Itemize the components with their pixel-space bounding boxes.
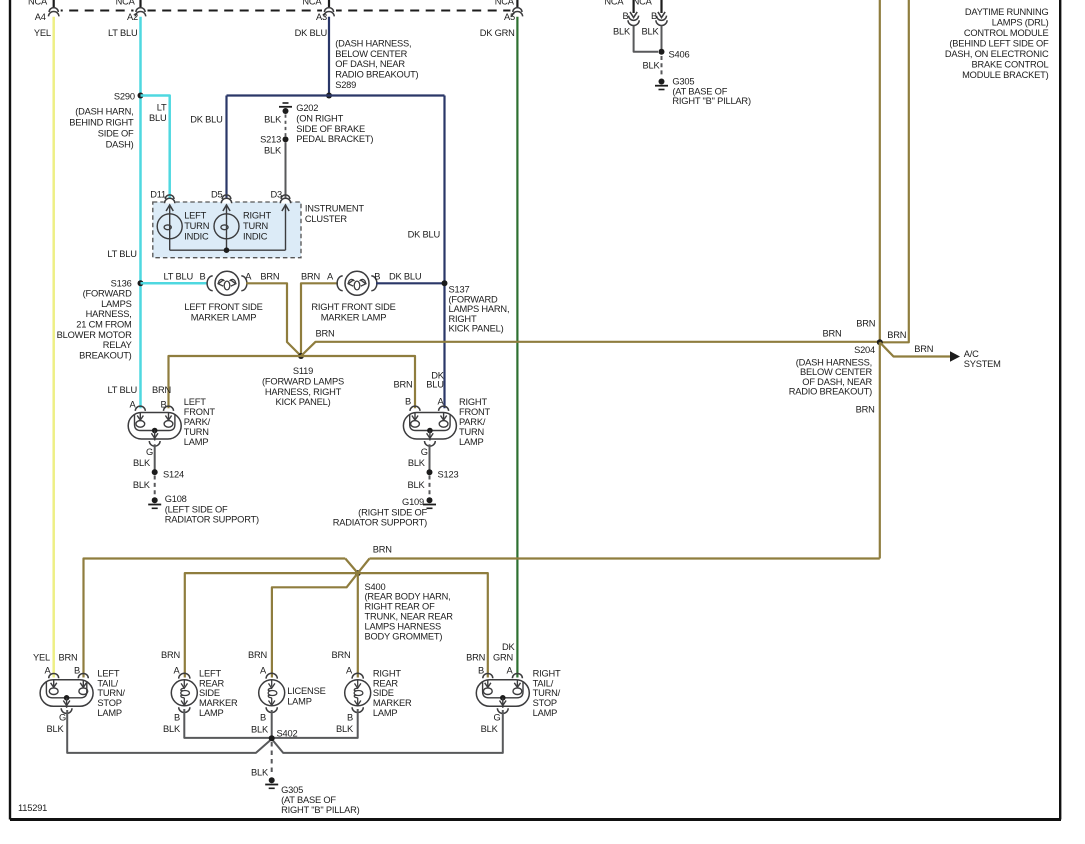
svg-text:B: B (174, 713, 180, 723)
svg-text:G: G (493, 713, 500, 723)
svg-text:(LEFT SIDE OF: (LEFT SIDE OF (165, 504, 228, 514)
DRL module location note (945, 7, 1049, 80)
svg-text:BLOWER MOTOR: BLOWER MOTOR (57, 330, 132, 340)
right turn indicator lamp (214, 205, 271, 242)
svg-text:(AT BASE OF: (AT BASE OF (281, 795, 336, 805)
svg-text:(FORWARD: (FORWARD (83, 289, 132, 299)
wire DK GRN from A5 to right tail lamp (480, 17, 518, 678)
svg-text:(RIGHT SIDE OF: (RIGHT SIDE OF (358, 507, 427, 517)
svg-text:RADIATOR SUPPORT): RADIATOR SUPPORT) (165, 515, 259, 525)
wire BLK right park G to S123 (408, 444, 430, 472)
svg-text:A4: A4 (35, 12, 46, 22)
svg-text:SIDE: SIDE (373, 688, 394, 698)
wire BRN S119 to right park lamp B (301, 356, 415, 408)
svg-text:G202: G202 (296, 103, 318, 113)
svg-text:(FORWARD LAMPS: (FORWARD LAMPS (262, 376, 344, 386)
svg-text:NCA: NCA (604, 0, 624, 7)
svg-text:LT BLU: LT BLU (108, 28, 137, 38)
svg-text:SIDE OF BRAKE: SIDE OF BRAKE (296, 124, 365, 134)
cluster D3 internal wire (282, 205, 289, 251)
svg-text:LAMPS (DRL): LAMPS (DRL) (992, 17, 1049, 27)
splice S402 (269, 729, 298, 742)
label LT BLU vertical (107, 249, 136, 259)
svg-text:MODULE BRACKET): MODULE BRACKET) (962, 70, 1048, 80)
svg-text:DASH, ON ELECTRONIC: DASH, ON ELECTRONIC (945, 49, 1049, 59)
svg-text:S400: S400 (365, 582, 386, 592)
svg-text:LEFT: LEFT (184, 211, 206, 221)
svg-text:NCA: NCA (116, 0, 136, 7)
svg-text:RIGHT: RIGHT (449, 314, 477, 324)
svg-text:S290: S290 (114, 91, 135, 101)
svg-text:LT BLU: LT BLU (164, 272, 193, 282)
svg-text:BLK: BLK (251, 768, 269, 778)
svg-text:TURN/: TURN/ (97, 688, 125, 698)
svg-text:INDIC: INDIC (184, 231, 209, 241)
left tail lamp pin labels (33, 653, 80, 676)
svg-text:BRN: BRN (856, 405, 875, 415)
svg-text:BRN: BRN (887, 330, 906, 340)
svg-text:MARKER: MARKER (373, 698, 412, 708)
wire BRN DRL output 1 (879, 0, 881, 342)
svg-text:BREAKOUT): BREAKOUT) (79, 350, 132, 360)
svg-text:BRN: BRN (301, 272, 320, 282)
wire DK BLU S289 bus (227, 94, 445, 96)
S119 location note (262, 366, 344, 407)
svg-text:BRN: BRN (161, 650, 180, 660)
svg-text:(ON RIGHT: (ON RIGHT (296, 113, 343, 123)
svg-text:MARKER LAMP: MARKER LAMP (321, 313, 386, 323)
svg-text:CLUSTER: CLUSTER (305, 214, 347, 224)
svg-text:BLK: BLK (133, 480, 151, 490)
svg-text:S136: S136 (111, 278, 132, 288)
wire BRN DRL output 2 (880, 0, 909, 342)
svg-text:TURN: TURN (459, 427, 484, 437)
svg-text:HARNESS, RIGHT: HARNESS, RIGHT (265, 387, 342, 397)
svg-text:S119: S119 (293, 366, 313, 376)
left tail/turn/stop lamp (40, 668, 125, 718)
svg-text:KICK PANEL): KICK PANEL) (276, 397, 331, 407)
svg-text:G305: G305 (672, 77, 694, 87)
svg-text:DK BLU: DK BLU (389, 272, 421, 282)
wire BLK right to S406 (661, 26, 663, 52)
svg-text:(AT BASE OF: (AT BASE OF (672, 86, 727, 96)
svg-text:BLK: BLK (264, 114, 282, 124)
svg-text:BLK: BLK (643, 60, 661, 70)
wire BRN S204 down to rear harness (879, 342, 881, 558)
svg-text:S123: S123 (438, 470, 459, 480)
svg-text:G109: G109 (402, 497, 424, 507)
svg-text:TRUNK, NEAR REAR: TRUNK, NEAR REAR (365, 612, 454, 622)
cluster pin D3 (271, 189, 292, 203)
svg-text:B: B (260, 713, 266, 723)
svg-text:SIDE OF: SIDE OF (98, 129, 134, 139)
wire BLK left to S406 (634, 26, 658, 52)
svg-text:BODY GROMMET): BODY GROMMET) (365, 631, 443, 641)
svg-text:SYSTEM: SYSTEM (964, 359, 1001, 369)
wire BLK dashed S402 to G305 (251, 742, 272, 778)
svg-text:BRN: BRN (914, 344, 933, 354)
svg-text:A3: A3 (316, 12, 327, 22)
svg-text:G: G (421, 447, 428, 457)
svg-text:BLK: BLK (133, 458, 151, 468)
S204 labels (822, 318, 933, 414)
svg-text:A: A (346, 666, 353, 676)
svg-text:BEHIND RIGHT: BEHIND RIGHT (69, 118, 134, 128)
ground G305 at right B pillar (bottom) (265, 777, 359, 815)
svg-text:DK BLU: DK BLU (408, 230, 440, 240)
S400 location note (365, 582, 454, 642)
svg-text:RIGHT: RIGHT (459, 397, 487, 407)
svg-text:HARNESS,: HARNESS, (86, 309, 132, 319)
svg-text:DK: DK (502, 642, 516, 652)
svg-text:G: G (146, 447, 153, 457)
svg-text:STOP: STOP (533, 698, 557, 708)
svg-text:RIGHT: RIGHT (373, 668, 401, 678)
svg-text:RADIO BREAKOUT): RADIO BREAKOUT) (789, 387, 872, 397)
svg-text:NCA: NCA (633, 0, 653, 7)
G202 location note (296, 103, 373, 144)
svg-text:A: A (260, 666, 267, 676)
svg-text:LAMPS: LAMPS (101, 299, 132, 309)
splice S204 (877, 339, 883, 345)
wire BRN S204 to A/C system with arrow (880, 342, 1001, 369)
splice S123 (427, 469, 459, 479)
svg-text:(DASH HARN,: (DASH HARN, (75, 107, 133, 117)
svg-text:LT BLU: LT BLU (107, 249, 136, 259)
svg-text:BLK: BLK (47, 724, 65, 734)
svg-text:LEFT: LEFT (199, 668, 221, 678)
wire YEL from A4 to left tail lamp (34, 17, 54, 678)
svg-text:A: A (327, 272, 334, 282)
module connector pin A2 (116, 0, 148, 22)
svg-text:TURN: TURN (184, 221, 209, 231)
svg-text:G108: G108 (165, 494, 187, 504)
left front side marker lamp (184, 271, 262, 322)
svg-text:BRN: BRN (822, 328, 841, 338)
svg-text:D3: D3 (271, 189, 283, 199)
svg-text:BRN: BRN (58, 653, 77, 663)
svg-text:S137: S137 (449, 285, 470, 295)
svg-text:BRN: BRN (856, 318, 875, 328)
svg-text:NCA: NCA (302, 0, 322, 7)
splice S400 (345, 559, 369, 577)
svg-text:FRONT: FRONT (459, 407, 491, 417)
svg-text:BELOW CENTER: BELOW CENTER (800, 367, 872, 377)
svg-text:SIDE: SIDE (199, 688, 220, 698)
svg-text:FRONT: FRONT (184, 407, 216, 417)
splice S137 (442, 280, 448, 286)
cluster internal bus (170, 239, 286, 253)
svg-text:S213: S213 (260, 135, 281, 145)
svg-text:S204: S204 (854, 345, 875, 355)
wire DK BLU to S137 (408, 96, 445, 409)
svg-text:BRN: BRN (331, 650, 350, 660)
S137 location note (449, 285, 510, 334)
svg-text:LT: LT (157, 103, 167, 113)
wire BRN S400 to license lamp (248, 573, 358, 677)
wire BRN left marker to S119 (245, 272, 301, 357)
svg-text:RIGHT "B" PILLAR): RIGHT "B" PILLAR) (281, 805, 360, 815)
wire LT BLU from A2 (108, 17, 140, 408)
svg-text:BELOW CENTER: BELOW CENTER (335, 49, 407, 59)
ground G305 at right B pillar (top) (655, 77, 751, 106)
wire BRN S400 to left rear marker (161, 573, 358, 677)
ground G109 (333, 497, 436, 528)
wire BRN right marker to S119 (301, 272, 338, 357)
right front park/turn lamp (403, 397, 490, 447)
diagram frame (9, 0, 11, 820)
S136 location note (57, 278, 132, 360)
svg-text:RIGHT: RIGHT (533, 668, 561, 678)
svg-text:MARKER: MARKER (199, 698, 238, 708)
svg-text:BRN: BRN (393, 380, 412, 390)
svg-text:BLK: BLK (613, 27, 631, 37)
left turn indicator lamp (157, 205, 209, 242)
svg-text:B: B (405, 397, 411, 407)
svg-text:RELAY: RELAY (103, 340, 132, 350)
svg-text:BRN: BRN (373, 544, 392, 554)
splice S136 (138, 280, 144, 286)
svg-text:BRN: BRN (260, 272, 279, 282)
svg-text:INSTRUMENT: INSTRUMENT (305, 203, 364, 213)
svg-text:BLK: BLK (336, 724, 354, 734)
svg-text:B: B (374, 272, 380, 282)
wire BLK dashed G202 to S213 (264, 114, 285, 136)
wire BLK left park G to S124 (133, 444, 155, 472)
svg-text:PARK/: PARK/ (184, 417, 211, 427)
svg-text:BLK: BLK (481, 724, 499, 734)
svg-text:NCA: NCA (495, 0, 515, 7)
right rear marker pin labels (346, 666, 353, 676)
svg-text:(FORWARD: (FORWARD (449, 294, 498, 304)
svg-text:BRAKE CONTROL: BRAKE CONTROL (972, 59, 1049, 69)
ground G202 on brake pedal bracket (279, 103, 292, 114)
svg-text:RIGHT REAR OF: RIGHT REAR OF (365, 602, 436, 612)
svg-text:A2: A2 (127, 12, 138, 22)
wire DK BLU right marker to S137 (374, 272, 444, 284)
splice S124 (152, 469, 184, 479)
svg-text:BLU: BLU (426, 380, 444, 390)
svg-text:OF DASH, NEAR: OF DASH, NEAR (335, 59, 405, 69)
module connector pin A4 (28, 0, 61, 22)
svg-text:TURN: TURN (243, 221, 268, 231)
left front park/turn lamp (128, 397, 215, 447)
svg-text:MARKER LAMP: MARKER LAMP (191, 313, 256, 323)
svg-text:DASH): DASH) (106, 140, 134, 150)
svg-text:BRN: BRN (316, 329, 335, 339)
svg-text:B: B (622, 11, 628, 21)
svg-text:YEL: YEL (34, 28, 51, 38)
svg-text:TURN: TURN (184, 427, 209, 437)
svg-text:LAMPS HARN,: LAMPS HARN, (449, 304, 510, 314)
svg-text:PEDAL BRACKET): PEDAL BRACKET) (296, 134, 373, 144)
svg-text:A/C: A/C (964, 349, 979, 359)
wire LT BLU S136 to left marker (141, 272, 208, 284)
wire BLK left rear marker to S402 (163, 709, 272, 738)
svg-text:S402: S402 (277, 729, 298, 739)
svg-text:TAIL/: TAIL/ (97, 678, 118, 688)
svg-text:A5: A5 (504, 12, 515, 22)
svg-text:RADIO BREAKOUT): RADIO BREAKOUT) (335, 70, 418, 80)
DRL control module boundary (dashed) (54, 10, 518, 12)
ground G108 (148, 494, 259, 525)
S290 location note (69, 107, 134, 150)
svg-text:B: B (160, 400, 166, 410)
svg-text:LEFT FRONT SIDE: LEFT FRONT SIDE (184, 302, 262, 312)
svg-text:OF DASH, NEAR: OF DASH, NEAR (802, 377, 872, 387)
svg-text:(BEHIND LEFT SIDE OF: (BEHIND LEFT SIDE OF (949, 38, 1049, 48)
splice S213 (260, 135, 288, 145)
svg-text:LAMP: LAMP (459, 437, 484, 447)
wire BLK dashed to G305 (643, 56, 662, 77)
splice S119 (298, 353, 304, 359)
svg-text:S406: S406 (669, 49, 690, 59)
svg-text:GRN: GRN (493, 653, 513, 663)
splice S290 (114, 91, 144, 101)
svg-text:REAR: REAR (199, 678, 225, 688)
svg-text:B: B (651, 11, 657, 21)
svg-text:BLK: BLK (642, 27, 660, 37)
svg-text:REAR: REAR (373, 678, 399, 688)
svg-text:BRN: BRN (248, 650, 267, 660)
svg-text:LEFT: LEFT (184, 397, 206, 407)
svg-text:A: A (173, 666, 180, 676)
module connector pin A3 (302, 0, 336, 22)
right front side marker lamp (311, 271, 395, 322)
wire LT BLU branch S290 to D11 (141, 96, 170, 198)
module connector pin A5 (495, 0, 525, 22)
instrument cluster box (153, 202, 365, 258)
wire BLK right tail G to S402 (272, 710, 503, 753)
svg-text:A: A (437, 397, 444, 407)
svg-text:NCA: NCA (28, 0, 48, 7)
svg-text:BLK: BLK (163, 724, 181, 734)
svg-text:INDIC: INDIC (243, 231, 268, 241)
svg-text:(REAR BODY HARN,: (REAR BODY HARN, (365, 592, 451, 602)
svg-text:LT BLU: LT BLU (108, 385, 137, 395)
svg-text:A: A (245, 272, 252, 282)
svg-text:DAYTIME RUNNING: DAYTIME RUNNING (965, 7, 1049, 17)
svg-text:S289: S289 (335, 80, 356, 90)
svg-text:G305: G305 (281, 785, 303, 795)
svg-text:RADIATOR SUPPORT): RADIATOR SUPPORT) (333, 518, 427, 528)
svg-text:BLU: BLU (149, 113, 167, 123)
wire BRN S119 to left park lamp B (169, 356, 302, 408)
wire BLK right rear marker to S402 (272, 709, 358, 738)
svg-text:TAIL/: TAIL/ (533, 678, 554, 688)
svg-text:BLK: BLK (251, 724, 269, 734)
wire BLK license lamp to S402 (251, 710, 272, 738)
wire BLK S213 to D3 (264, 143, 285, 198)
svg-text:21 CM FROM: 21 CM FROM (76, 320, 131, 330)
inline connector NCA-B left (604, 0, 639, 37)
license lamp pin labels (260, 666, 267, 676)
svg-text:(DASH HARNESS,: (DASH HARNESS, (796, 357, 872, 367)
svg-text:LAMP: LAMP (373, 708, 398, 718)
svg-text:YEL: YEL (33, 653, 50, 663)
svg-text:CONTROL MODULE: CONTROL MODULE (964, 28, 1049, 38)
svg-text:RIGHT "B" PILLAR): RIGHT "B" PILLAR) (672, 96, 751, 106)
svg-text:TURN/: TURN/ (533, 688, 561, 698)
svg-text:LAMP: LAMP (199, 708, 224, 718)
svg-text:LAMPS HARNESS: LAMPS HARNESS (365, 621, 441, 631)
svg-text:B: B (199, 272, 205, 282)
wire BRN S400 to right tail lamp B (358, 573, 488, 677)
svg-text:LAMP: LAMP (184, 437, 209, 447)
wire BLK dashed to G108 (133, 476, 155, 498)
svg-text:B: B (478, 666, 484, 676)
S204 location note (789, 357, 873, 396)
svg-text:D11: D11 (150, 189, 166, 199)
right tail lamp pin labels (466, 642, 515, 676)
wire BLK left tail G (47, 710, 272, 753)
right park lamp pin labels (393, 371, 444, 407)
left park lamp pin labels (108, 385, 171, 410)
svg-text:DK BLU: DK BLU (190, 115, 222, 125)
svg-text:B: B (347, 713, 353, 723)
license lamp (259, 673, 326, 712)
svg-text:RIGHT: RIGHT (243, 211, 271, 221)
splice S289 (326, 93, 332, 99)
svg-text:(DASH HARNESS,: (DASH HARNESS, (335, 38, 411, 48)
splice S406 (659, 49, 690, 60)
left rear side marker lamp (171, 668, 238, 718)
svg-text:RIGHT FRONT SIDE: RIGHT FRONT SIDE (311, 302, 395, 312)
svg-text:LAMP: LAMP (97, 708, 122, 718)
wire DK BLU from A3 (295, 17, 329, 96)
S289 location note (335, 38, 418, 90)
wire BRN rear bus (84, 544, 880, 677)
diagram number (18, 803, 47, 813)
svg-text:KICK PANEL): KICK PANEL) (449, 324, 504, 334)
right rear side marker lamp (345, 668, 412, 718)
svg-text:BLK: BLK (408, 480, 426, 490)
cluster pin D11 (150, 189, 175, 203)
svg-text:BLK: BLK (408, 458, 426, 468)
wire BRN S400 to right rear marker (331, 573, 357, 677)
wire BRN S119 to S204 (301, 329, 880, 357)
inline connector NCA-B right (633, 0, 668, 37)
svg-text:D5: D5 (211, 189, 223, 199)
svg-text:115291: 115291 (18, 803, 47, 813)
svg-text:G: G (59, 713, 66, 723)
cluster pin D5 (211, 189, 233, 203)
svg-text:BLK: BLK (264, 146, 282, 156)
svg-text:LAMP: LAMP (287, 696, 312, 706)
wire BLK dashed to G109 (408, 476, 430, 498)
svg-text:S124: S124 (163, 470, 184, 480)
svg-text:LICENSE: LICENSE (287, 686, 325, 696)
svg-text:LAMP: LAMP (533, 708, 558, 718)
svg-text:B: B (74, 666, 80, 676)
right tail/turn/stop lamp (476, 668, 561, 718)
left rear marker pin labels (173, 666, 180, 676)
svg-text:PARK/: PARK/ (459, 417, 486, 427)
wire DK BLU to D5 (190, 96, 226, 198)
svg-text:STOP: STOP (97, 698, 121, 708)
svg-text:DK GRN: DK GRN (480, 28, 515, 38)
svg-text:DK BLU: DK BLU (295, 28, 327, 38)
svg-text:BRN: BRN (152, 385, 171, 395)
svg-text:LEFT: LEFT (97, 668, 119, 678)
svg-text:A: A (506, 666, 513, 676)
svg-text:BRN: BRN (466, 653, 485, 663)
